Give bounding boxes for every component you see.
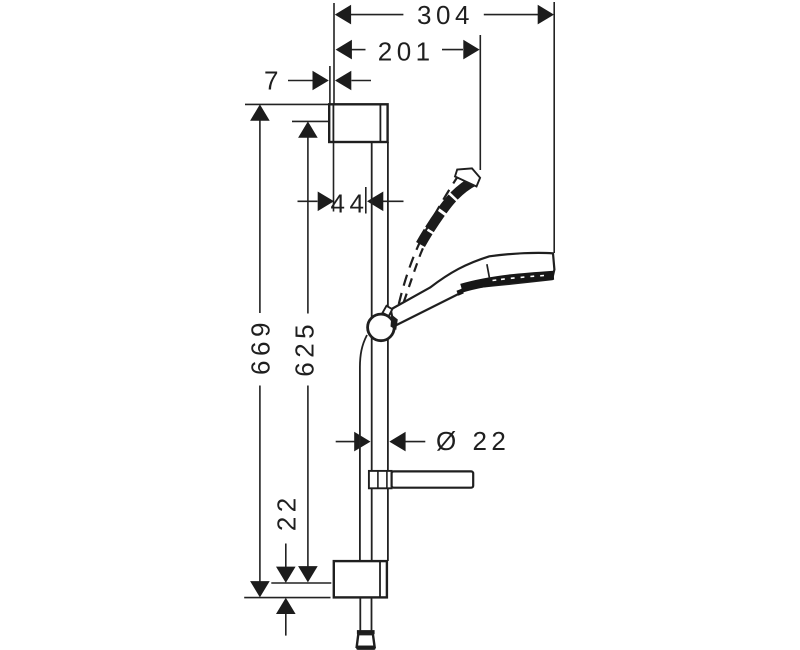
arrow 201 left: [336, 40, 352, 60]
dim line 304: [351, 14, 404, 16]
head divider line: [487, 264, 490, 279]
arrow dia22 pointing right: [354, 432, 370, 452]
arrow 7 pointing left: [335, 71, 351, 91]
dashed handle outline left: [399, 175, 459, 305]
soap dish mount block: [369, 471, 392, 488]
dim line dia22: [336, 441, 355, 443]
wall bracket top: [329, 104, 387, 142]
arrow 7 pointing right: [313, 71, 329, 91]
arrow 44 pointing right: [318, 192, 334, 212]
wall bracket top inner right line: [379, 104, 381, 142]
soap dish tray: [392, 471, 474, 487]
slide bar left edge: [371, 142, 373, 561]
arrow 625 up: [298, 121, 318, 137]
dim line 201: [351, 49, 366, 51]
svg-text:201: 201: [378, 36, 435, 66]
extension line wall top: [333, 3, 335, 104]
spray nozzle white dashes: [493, 276, 545, 281]
holder ball: [368, 314, 395, 341]
svg-text:44: 44: [331, 189, 369, 219]
svg-text:304: 304: [417, 0, 474, 30]
hose nut cone: [357, 634, 375, 647]
extension line wall face: [329, 66, 331, 104]
spray face left end blob: [457, 289, 464, 296]
arrow 44 pointing left: [367, 192, 383, 212]
extension line 625 bottom: [271, 582, 331, 584]
arrow 304 right: [538, 5, 554, 25]
arrow 304 left: [335, 5, 351, 25]
hose nut band: [357, 630, 375, 634]
hand shower body (handle + head): [391, 253, 555, 325]
svg-text:7: 7: [264, 66, 283, 96]
dashed position head end cap: [455, 168, 480, 186]
extension line 201 right: [479, 35, 481, 170]
extension line 304 right: [553, 2, 555, 253]
arrow 625 down: [298, 566, 318, 582]
dashed handle outline right: [404, 239, 427, 303]
extension line 669 bottom: [244, 597, 330, 599]
svg-text:Ø 22: Ø 22: [436, 426, 510, 456]
extension stub 44 right: [365, 187, 367, 214]
dim line 669 vertical: [259, 121, 261, 314]
hose below bracket left: [359, 597, 361, 630]
arrow 22 down: [276, 567, 296, 583]
spray face band solid head: [462, 275, 554, 288]
hose below bracket right: [371, 597, 373, 630]
wall bracket top inner left line: [332, 104, 334, 142]
holder clamp wedge: [391, 315, 398, 331]
dim line 22 vertical: [285, 544, 287, 568]
slide bar right edge: [387, 142, 389, 561]
arrow 201 right: [463, 40, 479, 60]
svg-text:22: 22: [272, 493, 302, 531]
arrow 669 up: [250, 104, 270, 120]
extension line below bracket: [333, 143, 335, 212]
wall bracket bottom inner line: [379, 561, 381, 597]
svg-text:625: 625: [290, 320, 320, 377]
wall bracket bottom: [334, 561, 387, 597]
arrow dia22 pointing left: [389, 432, 405, 452]
extension line 625 top: [292, 120, 329, 122]
dim line 625 vertical: [307, 138, 309, 314]
arrow 22 up: [276, 598, 296, 614]
arrow 669 down: [250, 581, 270, 597]
holder tab: [383, 306, 393, 316]
extension line 669 top: [245, 103, 329, 105]
dim line 7: [288, 80, 313, 82]
dim line 44: [298, 200, 318, 202]
svg-text:669: 669: [245, 318, 275, 375]
hose nut bottom edge: [356, 646, 375, 650]
dashed position spray face band: [421, 181, 476, 245]
soap dish mount inner lines: [377, 471, 379, 488]
shower hose upper curve: [360, 335, 367, 561]
